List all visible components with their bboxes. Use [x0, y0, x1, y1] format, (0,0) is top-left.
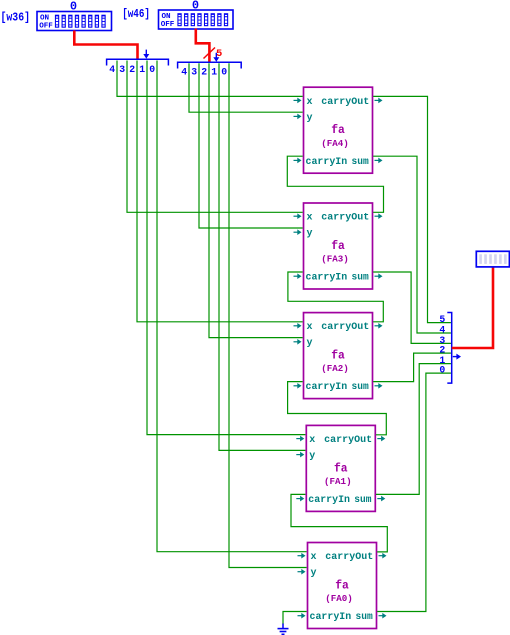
svg-text:fa: fa	[331, 349, 345, 363]
svg-text:carryOut: carryOut	[321, 97, 369, 108]
svg-text:carryOut: carryOut	[324, 435, 372, 446]
svg-text:2: 2	[439, 345, 445, 356]
svg-text:sum: sum	[352, 382, 369, 393]
splitter SP1 bracket	[107, 59, 169, 65]
svg-text:(FA0): (FA0)	[325, 593, 353, 604]
svg-text:x: x	[311, 552, 317, 563]
module FA4 (fa full adder)	[294, 87, 383, 173]
wire SP1 bit2 to FA2.x	[137, 61, 303, 322]
bus width slash /5 on w46 bus	[204, 48, 216, 59]
FA4 pin carryOut arrow	[375, 99, 380, 101]
module FA2 (fa full adder)	[294, 313, 383, 399]
module FA1 (fa full adder)	[296, 425, 385, 511]
FA2 pin carryIn arrow	[294, 385, 299, 387]
svg-text:0: 0	[221, 67, 227, 78]
FA0 pin carryOut arrow	[379, 555, 384, 557]
wire FA0.carryOut to FA1.carryIn	[291, 494, 387, 552]
wire SP2 bit2 to FA2.y	[209, 63, 303, 337]
wire SP1 bit0 to FA0.x	[157, 61, 307, 552]
svg-text:2: 2	[129, 64, 135, 75]
svg-text:fa: fa	[331, 123, 345, 137]
svg-text:3: 3	[119, 64, 125, 75]
svg-text:x: x	[307, 322, 313, 333]
joiner J1 bracket	[447, 313, 451, 384]
FA0 pin carryIn arrow	[298, 615, 303, 617]
joiner output direction arrow	[453, 356, 457, 358]
dip switch w46	[159, 10, 234, 29]
FA0 pin y arrow	[298, 571, 303, 573]
svg-text:1: 1	[139, 64, 145, 75]
FA1 pin sum arrow	[377, 498, 382, 500]
svg-text:OFF: OFF	[161, 21, 175, 29]
svg-text:fa: fa	[334, 461, 348, 475]
svg-text:fa: fa	[331, 239, 345, 253]
wire SP2 bit1 to FA1.y	[219, 63, 305, 450]
FA3 pin carryIn arrow	[294, 275, 299, 277]
FA1 pin y arrow	[296, 454, 301, 456]
FA4 pin sum arrow	[375, 159, 380, 161]
FA2 pin x arrow	[294, 325, 299, 327]
ground	[278, 624, 289, 635]
wire FA2.carryOut to FA3.carryIn	[288, 272, 383, 322]
splitter SP2 direction arrow	[215, 53, 217, 59]
svg-text:carryOut: carryOut	[325, 552, 373, 563]
wire SP2 bit4 to FA4.y	[189, 63, 303, 112]
FA4 pin y arrow	[294, 115, 299, 117]
FA3 pin y arrow	[294, 231, 299, 233]
svg-text:x: x	[307, 213, 313, 224]
wire ground to FA0.carryIn	[283, 612, 307, 625]
svg-text:sum: sum	[352, 273, 369, 284]
FA4 pin carryIn arrow	[294, 159, 299, 161]
svg-text:y: y	[307, 338, 313, 349]
FA3 pin carryOut arrow	[375, 215, 380, 217]
svg-text:(FA2): (FA2)	[321, 363, 349, 374]
wire FA3.carryOut to FA4.carryIn	[287, 156, 383, 212]
wire FA1.sum to joiner bit1	[376, 364, 451, 495]
FA0 pin sum arrow	[379, 615, 384, 617]
FA0 pin x arrow	[298, 555, 303, 557]
svg-text:[w46]: [w46]	[122, 7, 150, 21]
svg-text:carryIn: carryIn	[306, 157, 348, 168]
bus wire switch w46 to splitter SP2	[196, 29, 210, 63]
bus wire switch w36 to splitter SP1	[74, 31, 137, 60]
svg-text:0: 0	[439, 365, 445, 376]
svg-text:(FA1): (FA1)	[324, 476, 352, 487]
svg-text:4: 4	[109, 64, 115, 75]
svg-text:carryOut: carryOut	[321, 322, 369, 333]
module FA3 (fa full adder)	[294, 203, 383, 289]
FA3 pin sum arrow	[375, 275, 380, 277]
svg-text:[w36]: [w36]	[1, 11, 31, 25]
svg-text:y: y	[307, 229, 313, 240]
svg-text:ON: ON	[40, 14, 50, 22]
svg-text:carryIn: carryIn	[308, 495, 350, 506]
wire FA4.sum to joiner bit4	[373, 156, 451, 333]
wire FA0.sum to joiner bit0	[377, 373, 451, 611]
svg-text:4: 4	[181, 67, 187, 78]
svg-text:4: 4	[439, 324, 445, 335]
svg-text:(FA4): (FA4)	[321, 138, 349, 149]
svg-text:x: x	[307, 97, 313, 108]
wire SP1 bit1 to FA1.x	[147, 61, 305, 435]
dip switch w36	[37, 12, 112, 31]
svg-text:ON: ON	[162, 13, 172, 21]
svg-text:2: 2	[201, 67, 207, 78]
svg-text:3: 3	[191, 67, 197, 78]
svg-text:fa: fa	[335, 579, 349, 593]
FA2 pin sum arrow	[375, 385, 380, 387]
FA4 pin x arrow	[294, 99, 299, 101]
wire FA1.carryOut to FA2.carryIn	[288, 382, 387, 435]
FA2 pin carryOut arrow	[375, 325, 380, 327]
FA1 pin x arrow	[296, 438, 301, 440]
FA2 pin y arrow	[294, 341, 299, 343]
svg-text:0: 0	[149, 64, 155, 75]
FA3 pin x arrow	[294, 215, 299, 217]
svg-text:1: 1	[211, 67, 217, 78]
wire FA2.sum to joiner bit2	[373, 353, 451, 382]
bus wire joiner to LED display	[452, 267, 493, 349]
svg-text:(FA3): (FA3)	[321, 254, 349, 265]
wire SP1 bit4 to FA4.x	[117, 61, 303, 97]
wire FA4.carryOut to joiner bit5	[373, 96, 451, 322]
svg-text:sum: sum	[354, 495, 371, 506]
svg-text:y: y	[307, 113, 313, 124]
FA1 pin carryOut arrow	[377, 438, 382, 440]
svg-text:carryIn: carryIn	[306, 273, 348, 284]
svg-text:x: x	[309, 435, 315, 446]
wire SP1 bit3 to FA3.x	[127, 61, 303, 213]
svg-text:carryOut: carryOut	[321, 213, 369, 224]
module FA0 (fa full adder)	[298, 543, 387, 629]
svg-text:OFF: OFF	[39, 23, 53, 31]
wire SP2 bit3 to FA3.y	[199, 63, 303, 228]
svg-text:sum: sum	[356, 612, 373, 623]
wire FA3.sum to joiner bit3	[373, 272, 451, 343]
svg-text:y: y	[309, 451, 315, 462]
FA1 pin carryIn arrow	[296, 498, 301, 500]
splitter SP2 bracket	[178, 62, 242, 68]
svg-text:sum: sum	[352, 157, 369, 168]
splitter SP1 direction arrow	[145, 50, 147, 56]
svg-text:5: 5	[439, 314, 445, 325]
svg-text:y: y	[311, 568, 317, 579]
svg-text:carryIn: carryIn	[306, 382, 348, 393]
svg-text:carryIn: carryIn	[310, 612, 352, 623]
wire SP2 bit0 to FA0.y	[229, 63, 307, 567]
LED bar display	[476, 251, 509, 267]
